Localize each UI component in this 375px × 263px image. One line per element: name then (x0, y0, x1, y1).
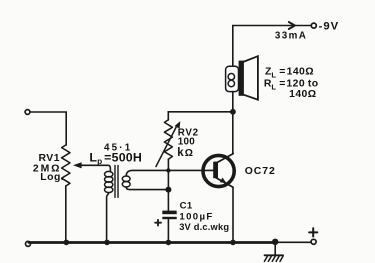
loudspeaker cone (244, 56, 258, 99)
capacitor C1 plates (162, 211, 176, 215)
arrow current direction on top rail (289, 22, 295, 29)
transistor emitter line (216, 178, 233, 188)
junction node primary bottom on rail (104, 240, 110, 246)
label + polarity of C1 (155, 220, 161, 226)
wiper arrow of RV2 (156, 125, 178, 167)
wire secondary bottom lead (126, 187, 168, 190)
svg-text:140Ω: 140Ω (289, 89, 316, 100)
potentiometer RV2 zigzag (164, 120, 172, 159)
input terminal top left (25, 110, 30, 115)
emitter arrow (220, 178, 227, 183)
svg-text:to: to (308, 78, 319, 89)
wire rail to + terminal (275, 241, 311, 243)
svg-text:140Ω: 140Ω (287, 66, 314, 77)
transformer core (115, 165, 118, 197)
svg-text:3V d.c.wkg: 3V d.c.wkg (179, 222, 229, 232)
svg-text:100µF: 100µF (179, 211, 213, 222)
wire primary bottom lead to rail (107, 193, 109, 243)
transformer T1 secondary coil (122, 176, 130, 187)
wire secondary top lead / base line (126, 170, 213, 176)
svg-text:C1: C1 (180, 200, 193, 211)
junction node secondary bottom / C1 top (165, 187, 171, 193)
svg-text:L: L (271, 83, 276, 92)
svg-text:=: = (279, 66, 285, 77)
wire RV1 bottom to rail (65, 186, 67, 243)
bottom rail 0V (29, 241, 275, 244)
wire input to RV1 top (30, 112, 66, 145)
svg-text:=: = (279, 78, 285, 89)
wire emitter vertical to rail (232, 187, 234, 242)
ground stub (274, 243, 276, 255)
transistor Q1 OC72 circle (203, 155, 234, 186)
transistor base bar (213, 162, 218, 179)
wire RV2 top horizontal (168, 112, 233, 120)
wire RV2 bottom lead down to C1 (167, 159, 169, 210)
junction node base line crossing (166, 168, 170, 172)
junction node RV1 bottom on rail (64, 240, 70, 246)
loudspeaker voice coil (226, 66, 239, 91)
ground hatch symbol (265, 254, 283, 256)
svg-text:Log.: Log. (40, 172, 64, 183)
wire collector vertical (speaker bottom to transistor) (232, 92, 234, 154)
label + supply (309, 228, 317, 236)
supply terminal -9V (311, 23, 316, 28)
transistor collector line (216, 154, 234, 164)
junction node below speaker (230, 109, 236, 115)
svg-text:120: 120 (286, 78, 305, 89)
junction node ground (272, 239, 278, 245)
svg-text:Lp=500H: Lp=500H (89, 150, 142, 166)
svg-text:-9V: -9V (319, 21, 340, 33)
potentiometer RV1 zigzag (62, 145, 70, 186)
wiper arrow of RV1 (73, 162, 82, 168)
svg-text:kΩ: kΩ (177, 147, 194, 159)
svg-text:L: L (271, 70, 276, 79)
junction node C1 on rail (166, 240, 172, 246)
svg-text:OC72: OC72 (245, 166, 276, 177)
transformer T1 primary coil (105, 171, 113, 192)
wire top rail from corner to -9V terminal (233, 26, 311, 67)
wire RV1 wiper to transformer primary (80, 165, 110, 172)
supply terminal + circle (311, 239, 316, 244)
loudspeaker magnet bar (239, 61, 244, 96)
svg-text:33mA: 33mA (275, 31, 307, 42)
wire C1 bottom lead (167, 219, 169, 242)
input terminal bottom left (26, 241, 31, 246)
junction node emitter on rail (230, 240, 236, 246)
